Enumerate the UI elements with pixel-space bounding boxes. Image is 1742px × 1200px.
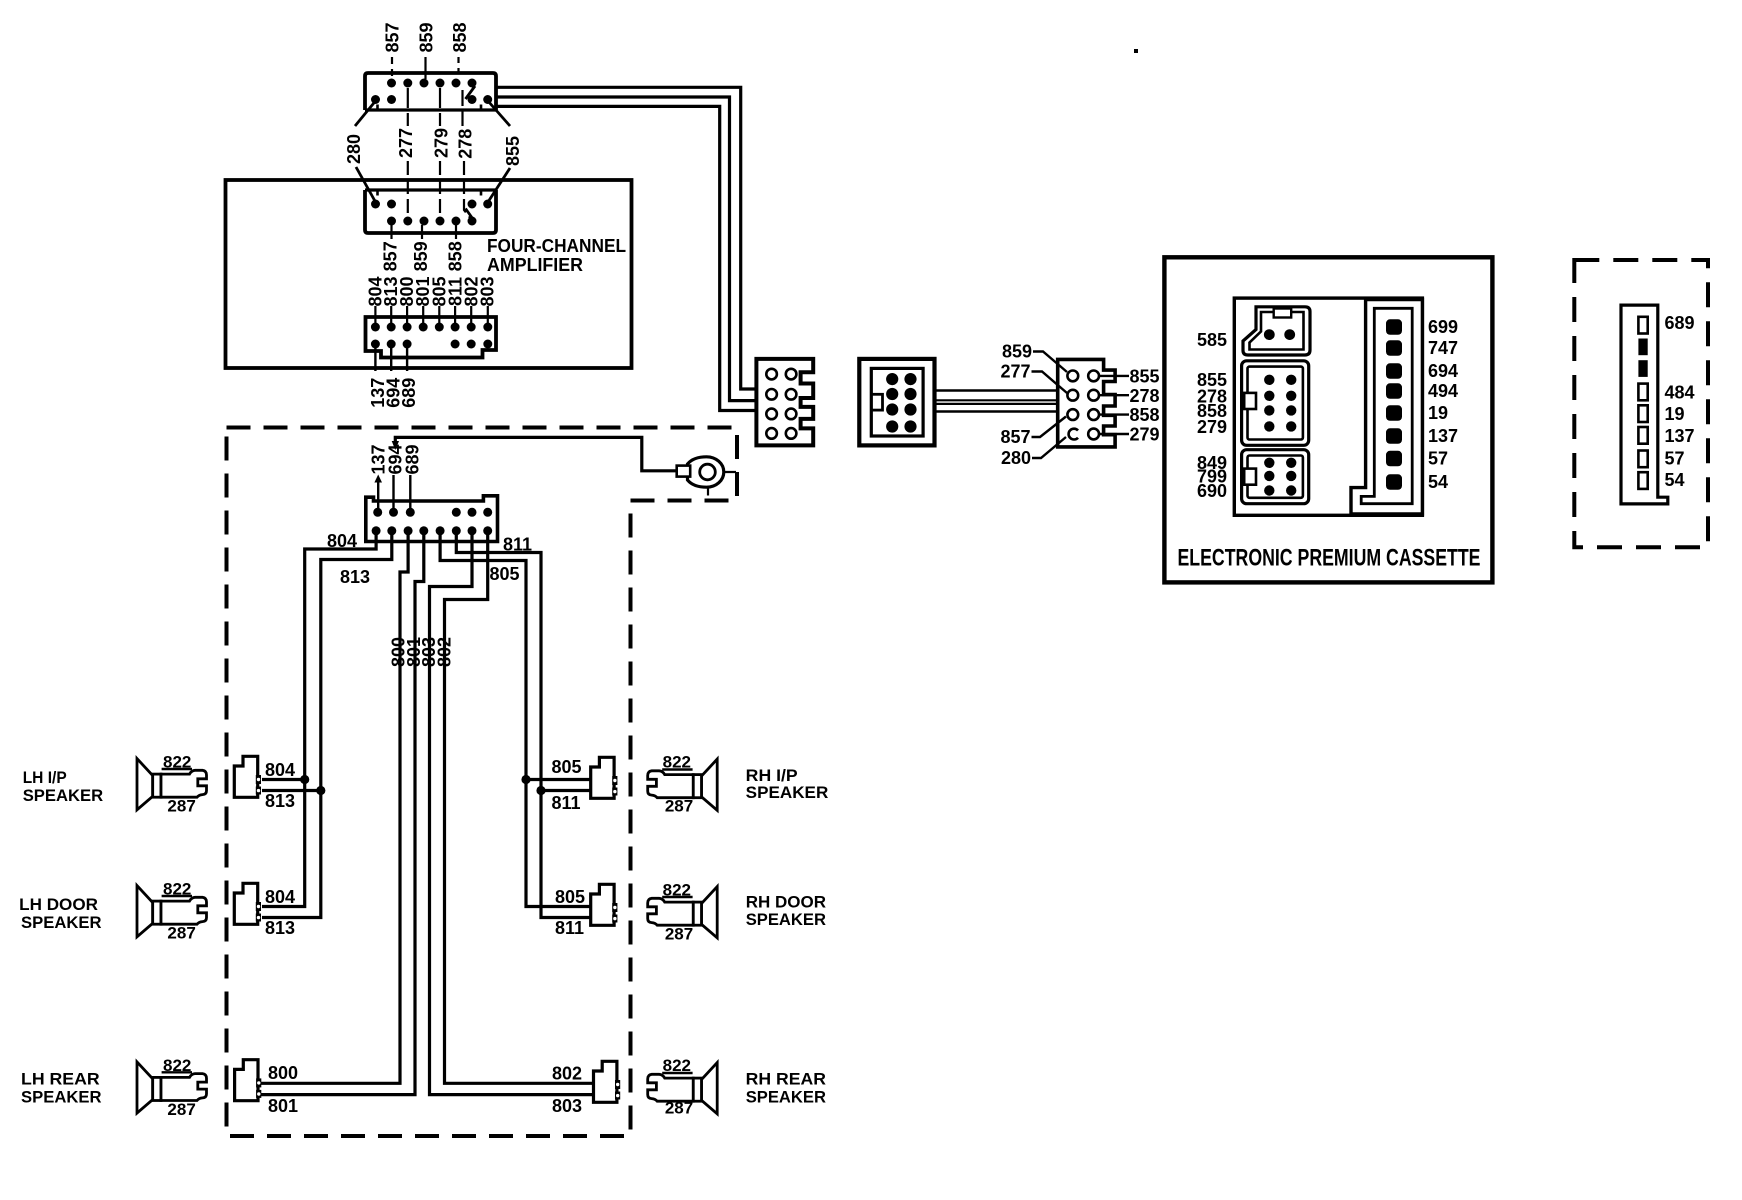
RH rear pigtail connector [552, 1061, 620, 1116]
svg-text:280: 280 [1001, 448, 1031, 468]
wire 805 branch to RH I/P speaker [526, 778, 591, 781]
svg-text:805: 805 [555, 887, 585, 907]
svg-text:699: 699 [1428, 317, 1458, 337]
junction 804 [300, 775, 309, 784]
connector C5 radio harness connector (open pins) [756, 359, 813, 446]
connector C4 speaker harness connector [366, 496, 498, 542]
svg-text:858: 858 [1130, 405, 1160, 425]
svg-text:822: 822 [163, 1056, 191, 1075]
LH I/P pigtail connector [234, 756, 295, 811]
svg-text:801: 801 [268, 1096, 298, 1116]
svg-text:804: 804 [327, 531, 357, 551]
label 858 middle [446, 225, 466, 271]
svg-text:804: 804 [265, 760, 295, 780]
RH I/P speaker [648, 753, 829, 816]
mating edge connector in dashed box [1621, 305, 1668, 504]
svg-text:689: 689 [1665, 313, 1695, 333]
leader lines from output labels to connector C3 pins [375, 306, 487, 324]
svg-text:859: 859 [1002, 342, 1032, 362]
svg-text:ELECTRONIC PREMIUM CASSETTE: ELECTRONIC PREMIUM CASSETTE [1178, 545, 1481, 572]
LH I/P speaker [23, 753, 207, 816]
svg-text:287: 287 [665, 797, 693, 816]
svg-text:811: 811 [503, 535, 532, 555]
svg-text:858: 858 [446, 241, 466, 271]
svg-text:54: 54 [1665, 470, 1685, 490]
svg-text:137: 137 [1665, 426, 1695, 446]
svg-text:484: 484 [1665, 383, 1695, 403]
wire 858 [935, 403, 1058, 405]
connector C2 bottom half (amplifier side) [365, 190, 496, 233]
wire 804 branch to LH I/P speaker [262, 778, 305, 781]
svg-text:19: 19 [1428, 403, 1448, 423]
label 857 middle [381, 225, 401, 271]
cassette connector 849/799/690 [1197, 450, 1309, 504]
ground eyelet terminal [677, 456, 736, 496]
connector C3 (amplifier output connector) [366, 317, 497, 358]
svg-text:800: 800 [268, 1063, 298, 1083]
svg-text:813: 813 [265, 791, 295, 811]
svg-text:SPEAKER: SPEAKER [746, 1088, 826, 1107]
svg-text:277: 277 [1000, 362, 1030, 382]
svg-text:SPEAKER: SPEAKER [23, 786, 104, 805]
label 137 above speaker connector with up arrow [368, 444, 388, 508]
connector C2 key slash [466, 209, 475, 221]
svg-text:747: 747 [1428, 338, 1458, 358]
svg-text:RH REAR: RH REAR [746, 1070, 826, 1089]
svg-text:54: 54 [1428, 472, 1448, 492]
wire 801 (pin4 to LH rear speaker) [259, 531, 424, 1095]
svg-text:822: 822 [663, 753, 691, 772]
label 277 with leaders [396, 88, 416, 217]
electronic premium cassette box [1164, 257, 1492, 582]
svg-text:287: 287 [665, 925, 693, 944]
junction 811 [536, 786, 545, 795]
svg-text:277: 277 [396, 128, 416, 158]
wire 278 [935, 399, 1058, 401]
svg-text:278: 278 [456, 129, 476, 159]
wire 813 (pin2 to LH speakers) [262, 531, 392, 918]
label 859 with leader [1002, 342, 1067, 373]
label 689 above speaker connector [402, 444, 422, 508]
cassette pin labels 699 747 694 494 19 137 57 54 [1428, 317, 1458, 492]
stray mark [1134, 49, 1138, 53]
LH rear pigtail connector [235, 1060, 298, 1116]
svg-text:LH DOOR: LH DOOR [19, 895, 98, 914]
wire 805 (pin5 to RH speakers) [440, 531, 591, 907]
dashed speaker harness boundary box [227, 428, 738, 1137]
svg-text:802: 802 [552, 1064, 582, 1084]
LH door pigtail connector [234, 883, 295, 938]
label 279 with leaders [432, 88, 452, 217]
svg-text:19: 19 [1665, 404, 1685, 424]
svg-text:137: 137 [1428, 426, 1458, 446]
cassette connector 855/278/858/279 [1197, 361, 1309, 446]
svg-text:57: 57 [1428, 449, 1448, 469]
label 858 top [450, 22, 470, 79]
label 280 with leader [1001, 437, 1066, 468]
svg-text:857: 857 [383, 22, 403, 52]
svg-text:287: 287 [167, 797, 195, 816]
svg-text:805: 805 [552, 757, 582, 777]
wire 694 to ground eyelet [392, 437, 677, 470]
wire 811 (pin6 to RH speakers) [456, 531, 590, 918]
wire 855 between radio plug and cassette connector [935, 389, 1058, 391]
wire 800 (pin3 to LH rear speaker) [259, 531, 408, 1083]
svg-text:FOUR-CHANNEL: FOUR-CHANNEL [487, 236, 626, 256]
mating connector labels 689 484 19 137 57 54 [1665, 313, 1695, 490]
svg-text:SPEAKER: SPEAKER [746, 910, 826, 929]
label 278 right with stub [1099, 386, 1160, 406]
svg-text:811: 811 [552, 793, 581, 813]
svg-text:855: 855 [1130, 367, 1160, 387]
connector C1 key slash [466, 86, 476, 99]
connector C1 top half (in-line connector to amplifier) [365, 73, 496, 110]
label 279 right with stub [1099, 425, 1160, 445]
svg-text:802: 802 [435, 637, 455, 667]
label 857 with leader [1000, 417, 1066, 448]
labels 137 694 689 below amplifier [368, 344, 419, 408]
svg-text:RH DOOR: RH DOOR [746, 893, 826, 912]
wire 802 (pin8 to RH rear speaker) [445, 531, 595, 1083]
wire 279 lower wire [496, 106, 756, 410]
svg-text:857: 857 [1000, 427, 1030, 447]
svg-text:690: 690 [1197, 481, 1227, 501]
svg-text:811: 811 [555, 918, 584, 938]
svg-text:859: 859 [416, 22, 436, 52]
svg-text:LH REAR: LH REAR [21, 1070, 100, 1089]
svg-text:494: 494 [1428, 381, 1458, 401]
svg-text:858: 858 [450, 22, 470, 52]
junction 805 [521, 775, 530, 784]
label 280 with leaders [344, 101, 376, 202]
RH door pigtail connector [555, 884, 617, 938]
cassette connector 585 [1197, 307, 1310, 355]
svg-text:57: 57 [1665, 449, 1685, 469]
svg-text:278: 278 [1130, 386, 1160, 406]
svg-text:279: 279 [1197, 417, 1227, 437]
label 858 right with stub [1099, 405, 1160, 425]
label 859 top [416, 22, 436, 79]
svg-text:822: 822 [163, 753, 191, 772]
svg-text:SPEAKER: SPEAKER [21, 913, 102, 932]
svg-text:694: 694 [1428, 361, 1458, 381]
svg-text:804: 804 [265, 887, 295, 907]
svg-text:280: 280 [344, 134, 364, 164]
svg-text:813: 813 [340, 567, 370, 587]
wire 804 (pin1 to LH speakers) [262, 531, 376, 907]
connector C6 radio plug (filled pins) [859, 359, 934, 446]
RH I/P pigtail connector [552, 757, 618, 813]
junction 813 [316, 786, 325, 795]
svg-text:822: 822 [163, 880, 191, 899]
svg-text:SPEAKER: SPEAKER [21, 1088, 102, 1107]
svg-text:805: 805 [490, 564, 520, 584]
svg-text:813: 813 [265, 918, 295, 938]
svg-text:855: 855 [503, 136, 523, 166]
wire 278/858 middle wire [496, 97, 756, 401]
svg-text:287: 287 [665, 1099, 693, 1118]
svg-text:AMPLIFIER: AMPLIFIER [487, 255, 583, 275]
svg-text:585: 585 [1197, 330, 1227, 350]
labels 804 813 800 801 805 811 802 803 (amplifier outputs) [366, 276, 498, 306]
svg-text:LH I/P: LH I/P [23, 768, 67, 787]
svg-text:287: 287 [167, 924, 195, 943]
four-channel amplifier box [226, 180, 632, 368]
svg-text:689: 689 [402, 444, 422, 474]
far right dashed box [1574, 260, 1708, 547]
label 855 with leaders [488, 101, 523, 202]
svg-text:822: 822 [663, 881, 691, 900]
svg-text:859: 859 [411, 241, 431, 271]
svg-text:803: 803 [478, 276, 498, 306]
label 694 above speaker connector [386, 444, 406, 508]
label 278 with leaders [456, 90, 476, 219]
svg-text:287: 287 [167, 1100, 195, 1119]
wire 811 branch to RH I/P speaker [541, 789, 591, 792]
svg-text:SPEAKER: SPEAKER [746, 783, 829, 802]
RH rear speaker [648, 1056, 826, 1118]
svg-text:822: 822 [663, 1056, 691, 1075]
svg-text:689: 689 [399, 378, 419, 408]
RH door speaker [648, 881, 826, 944]
LH rear speaker [21, 1056, 207, 1119]
wire 813 branch to LH I/P speaker [262, 789, 321, 792]
label 857 top [383, 22, 403, 79]
wire 279 [935, 410, 1058, 412]
wire 855 (amplifier to radio connector) [496, 87, 756, 389]
svg-text:279: 279 [1130, 425, 1160, 445]
cassette edge connector strip [1351, 300, 1422, 514]
svg-text:803: 803 [552, 1096, 582, 1116]
svg-text:279: 279 [432, 128, 452, 158]
label 277 with leader [1000, 362, 1067, 394]
label 859 middle [411, 225, 431, 271]
connector C7 cassette harness connector [1058, 359, 1115, 447]
svg-text:857: 857 [381, 241, 401, 271]
wire 803 (pin7 to RH rear speaker) [430, 531, 595, 1095]
label 855 right with stub [1099, 367, 1160, 387]
labels 800 801 803 802 on vertical runs [389, 637, 455, 667]
LH door speaker [19, 880, 206, 943]
